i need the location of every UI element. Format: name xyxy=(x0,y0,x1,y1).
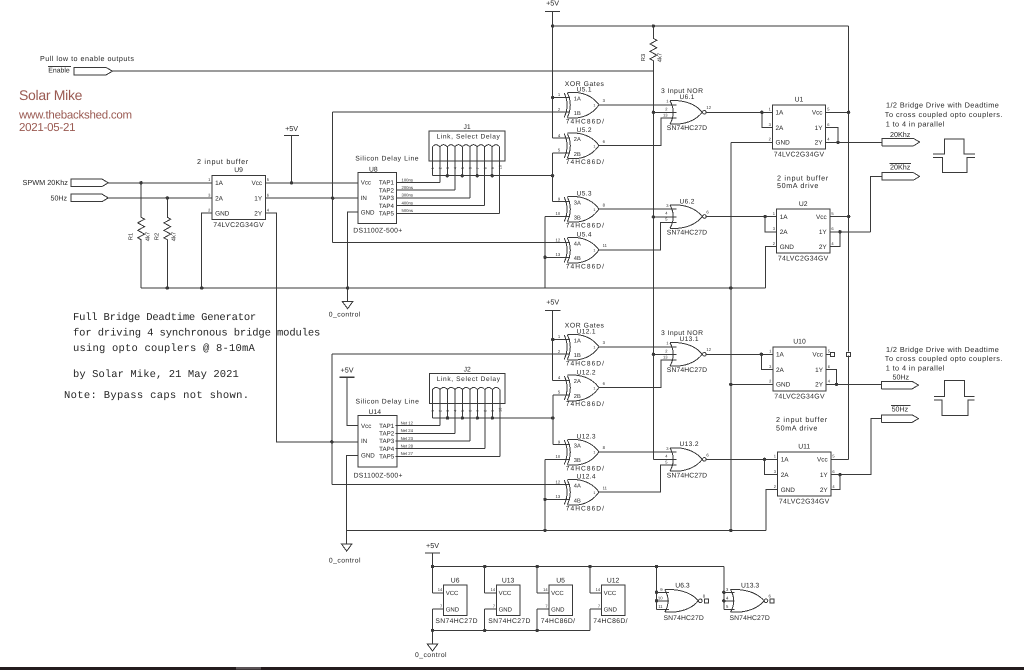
svg-text:Silicon Delay Line: Silicon Delay Line xyxy=(355,156,419,163)
svg-text:1Y: 1Y xyxy=(815,367,824,374)
svg-text:+5V: +5V xyxy=(341,366,354,375)
svg-text:20Khz: 20Khz xyxy=(890,130,911,139)
svg-text:74LVC2G34GV: 74LVC2G34GV xyxy=(213,222,264,229)
svg-text:SN74HC27D: SN74HC27D xyxy=(488,618,530,625)
svg-text:2Y: 2Y xyxy=(819,244,828,251)
svg-text:Net 24: Net 24 xyxy=(401,428,414,433)
svg-text:2Y: 2Y xyxy=(254,210,263,217)
svg-text:U6.3: U6.3 xyxy=(675,583,690,590)
svg-text:U6.1: U6.1 xyxy=(680,94,695,101)
svg-text:1A: 1A xyxy=(776,110,785,117)
svg-text:Vcc: Vcc xyxy=(361,180,371,187)
svg-text:74HC86D/: 74HC86D/ xyxy=(566,118,605,125)
svg-text:1A: 1A xyxy=(776,352,785,359)
svg-text:DS1100Z-500+: DS1100Z-500+ xyxy=(353,228,402,235)
svg-text:Enable: Enable xyxy=(48,68,70,75)
svg-text:500ns: 500ns xyxy=(402,208,413,213)
svg-text:GND: GND xyxy=(781,487,796,494)
svg-text:TAP4: TAP4 xyxy=(379,446,395,453)
svg-text:TAP1: TAP1 xyxy=(379,423,395,430)
svg-text:12: 12 xyxy=(556,479,561,484)
svg-text:8: 8 xyxy=(484,410,488,412)
svg-text:4k7: 4k7 xyxy=(144,232,151,241)
svg-text:SN74HC27D: SN74HC27D xyxy=(664,615,704,622)
svg-text:SN74HC27D: SN74HC27D xyxy=(730,615,770,622)
svg-text:74LVC2G34GV: 74LVC2G34GV xyxy=(774,151,825,158)
svg-text:TAP4: TAP4 xyxy=(379,203,395,210)
svg-text:VCC: VCC xyxy=(551,590,564,597)
svg-text:3: 3 xyxy=(446,410,450,412)
svg-text:To cross coupled opto couplers: To cross coupled opto couplers. xyxy=(885,354,1003,363)
svg-text:1: 1 xyxy=(593,491,595,495)
svg-text:4: 4 xyxy=(453,167,457,169)
svg-text:U5: U5 xyxy=(556,577,565,584)
svg-text:+5V: +5V xyxy=(426,541,439,550)
svg-text:1: 1 xyxy=(431,410,435,412)
svg-text:U10: U10 xyxy=(793,339,806,346)
svg-text:U6: U6 xyxy=(451,577,460,584)
svg-text:Solar Mike: Solar Mike xyxy=(19,87,83,103)
svg-text:13: 13 xyxy=(556,494,561,499)
svg-text:1: 1 xyxy=(593,386,595,390)
svg-text:www.thebackshed.com: www.thebackshed.com xyxy=(18,109,132,121)
svg-text:2A: 2A xyxy=(215,196,224,203)
svg-text:50Hz: 50Hz xyxy=(893,374,910,382)
svg-text:14: 14 xyxy=(491,587,496,592)
svg-text:TAP5: TAP5 xyxy=(379,211,395,218)
svg-text:2Y: 2Y xyxy=(815,382,824,389)
svg-text:Link, Select Delay: Link, Select Delay xyxy=(437,376,501,383)
svg-text:U11: U11 xyxy=(798,444,810,451)
svg-text:4k7: 4k7 xyxy=(657,53,664,62)
svg-text:GND: GND xyxy=(776,382,791,389)
svg-text:1A: 1A xyxy=(780,214,789,221)
svg-text:12: 12 xyxy=(706,347,711,352)
svg-text:GND: GND xyxy=(776,140,791,147)
svg-text:IN: IN xyxy=(361,438,367,445)
svg-text:IN: IN xyxy=(361,195,367,202)
svg-text:U12.4: U12.4 xyxy=(577,474,596,481)
svg-text:SN74HC27D: SN74HC27D xyxy=(667,125,707,132)
svg-text:50mA drive: 50mA drive xyxy=(776,423,818,432)
svg-text:GND: GND xyxy=(446,606,460,613)
svg-text:10: 10 xyxy=(499,408,503,412)
svg-text:R1: R1 xyxy=(129,233,135,240)
svg-text:5: 5 xyxy=(461,410,465,412)
svg-text:U14: U14 xyxy=(369,409,382,416)
svg-text:300ns: 300ns xyxy=(402,193,413,198)
svg-text:1Y: 1Y xyxy=(819,229,828,236)
svg-text:50mA drive: 50mA drive xyxy=(777,181,819,190)
svg-text:R2: R2 xyxy=(154,233,161,240)
svg-text:2Y: 2Y xyxy=(820,487,829,494)
svg-text:200ns: 200ns xyxy=(402,185,413,190)
svg-text:U13.3: U13.3 xyxy=(741,583,759,590)
svg-text:Pull low to enable outputs: Pull low to enable outputs xyxy=(40,54,134,63)
svg-text:1: 1 xyxy=(431,167,435,169)
svg-text:3A: 3A xyxy=(574,201,581,207)
svg-text:0_control: 0_control xyxy=(329,558,361,565)
svg-text:6: 6 xyxy=(469,410,473,412)
svg-text:6: 6 xyxy=(468,167,472,169)
svg-text:U12.2: U12.2 xyxy=(577,369,596,376)
svg-text:74LVC2G34GV: 74LVC2G34GV xyxy=(778,256,829,263)
svg-text:74LVC2G34GV: 74LVC2G34GV xyxy=(779,499,830,506)
svg-text:74HC86D/: 74HC86D/ xyxy=(566,264,605,271)
svg-text:U13: U13 xyxy=(502,577,515,584)
svg-text:U5.2: U5.2 xyxy=(577,127,592,134)
svg-text:SN74HC27D: SN74HC27D xyxy=(667,472,707,479)
svg-text:74HC86D/: 74HC86D/ xyxy=(566,506,605,513)
svg-text:2A: 2A xyxy=(780,229,789,236)
svg-text:3B: 3B xyxy=(574,458,581,464)
svg-text:U8: U8 xyxy=(369,166,378,173)
svg-text:1Y: 1Y xyxy=(254,196,263,203)
svg-text:10: 10 xyxy=(658,595,663,600)
svg-text:1: 1 xyxy=(593,144,595,148)
svg-text:74HC86D/: 74HC86D/ xyxy=(566,360,605,367)
svg-text:1/2 Bridge Drive with Deadtime: 1/2 Bridge Drive with Deadtime xyxy=(886,101,999,110)
svg-text:4A: 4A xyxy=(574,242,581,248)
svg-text:2A: 2A xyxy=(776,125,785,132)
svg-text:Net 28: Net 28 xyxy=(401,444,414,449)
svg-text:Vcc: Vcc xyxy=(817,457,828,464)
svg-text:4: 4 xyxy=(454,410,458,412)
svg-text:13: 13 xyxy=(663,112,668,117)
svg-text:2A: 2A xyxy=(781,472,790,479)
svg-text:74HC86D/: 74HC86D/ xyxy=(566,466,605,473)
svg-text:Net 12: Net 12 xyxy=(401,420,414,425)
svg-text:3 Input NOR: 3 Input NOR xyxy=(661,88,703,95)
svg-text:74HC86D/: 74HC86D/ xyxy=(566,223,605,230)
svg-text:74HC86D/: 74HC86D/ xyxy=(541,618,576,625)
svg-text:2B: 2B xyxy=(574,394,581,400)
svg-text:Vcc: Vcc xyxy=(361,423,371,430)
svg-text:74HC86D/: 74HC86D/ xyxy=(566,159,605,166)
svg-text:Full Bridge Deadtime Generator: Full Bridge Deadtime Generator xyxy=(73,312,256,324)
svg-text:2A: 2A xyxy=(574,137,581,143)
svg-text:9: 9 xyxy=(491,167,495,169)
svg-text:Note: Bypass caps not shown.: Note: Bypass caps not shown. xyxy=(64,390,249,402)
svg-text:74HC86D/: 74HC86D/ xyxy=(593,618,628,625)
svg-text:TAP3: TAP3 xyxy=(379,438,395,445)
svg-text:TAP5: TAP5 xyxy=(379,454,395,461)
svg-text:VCC: VCC xyxy=(604,590,617,597)
svg-text:1: 1 xyxy=(593,208,595,212)
svg-text:+5V: +5V xyxy=(546,0,559,8)
svg-text:VCC: VCC xyxy=(499,590,512,597)
svg-text:50Hz: 50Hz xyxy=(892,405,909,413)
svg-text:14: 14 xyxy=(543,587,548,592)
svg-text:SN74HC27D: SN74HC27D xyxy=(667,229,707,236)
svg-text:1: 1 xyxy=(593,104,595,108)
svg-text:2A: 2A xyxy=(574,379,581,385)
svg-text:U5.3: U5.3 xyxy=(577,191,592,198)
svg-text:1A: 1A xyxy=(215,180,224,187)
svg-text:SPWM 20Khz: SPWM 20Khz xyxy=(23,178,69,187)
svg-text:2021-05-21: 2021-05-21 xyxy=(19,122,75,134)
svg-text:2Y: 2Y xyxy=(815,140,824,147)
svg-text:1: 1 xyxy=(593,346,595,350)
svg-text:1A: 1A xyxy=(574,338,581,344)
svg-text:9: 9 xyxy=(491,410,495,412)
svg-text:400ns: 400ns xyxy=(402,200,413,205)
svg-text:Vcc: Vcc xyxy=(251,180,262,187)
svg-text:GND: GND xyxy=(780,244,795,251)
svg-text:4B: 4B xyxy=(574,498,581,504)
svg-text:using opto couplers @ 8-10mA: using opto couplers @ 8-10mA xyxy=(73,343,256,355)
svg-text:U5.1: U5.1 xyxy=(577,87,592,94)
svg-text:3B: 3B xyxy=(574,215,581,221)
svg-text:5: 5 xyxy=(461,167,465,169)
svg-text:U12.3: U12.3 xyxy=(577,434,596,441)
svg-text:100ns: 100ns xyxy=(402,177,413,182)
svg-text:14: 14 xyxy=(596,587,601,592)
svg-text:11: 11 xyxy=(658,604,663,609)
svg-text:U12: U12 xyxy=(607,577,620,584)
svg-text:1Y: 1Y xyxy=(820,472,829,479)
svg-text:2: 2 xyxy=(439,410,443,412)
svg-text:SN74HC27D: SN74HC27D xyxy=(667,367,707,374)
svg-text:Net 23: Net 23 xyxy=(401,436,414,441)
svg-text:Net 27: Net 27 xyxy=(401,451,414,456)
svg-text:3 Input NOR: 3 Input NOR xyxy=(661,330,703,337)
svg-text:10: 10 xyxy=(498,165,502,169)
svg-text:1/2 Bridge Drive with Deadtime: 1/2 Bridge Drive with Deadtime xyxy=(886,345,999,354)
svg-text:10: 10 xyxy=(556,454,561,459)
svg-text:TAP3: TAP3 xyxy=(379,195,395,202)
svg-text:74HC86D/: 74HC86D/ xyxy=(566,401,605,408)
svg-text:J1: J1 xyxy=(463,124,470,131)
svg-text:1A: 1A xyxy=(574,96,581,102)
svg-text:2: 2 xyxy=(438,167,442,169)
svg-text:14: 14 xyxy=(438,587,443,592)
svg-text:J2: J2 xyxy=(464,367,471,374)
svg-text:TAP2: TAP2 xyxy=(379,431,395,438)
svg-text:3A: 3A xyxy=(574,444,581,450)
svg-text:0_control: 0_control xyxy=(329,311,361,318)
svg-text:U12.1: U12.1 xyxy=(577,329,596,336)
svg-text:Vcc: Vcc xyxy=(812,352,823,359)
svg-text:2A: 2A xyxy=(776,367,785,374)
svg-text:50Hz: 50Hz xyxy=(51,194,68,202)
svg-text:74LVC2G34GV: 74LVC2G34GV xyxy=(774,393,825,400)
svg-text:1: 1 xyxy=(593,249,595,253)
svg-text:2 input buffer: 2 input buffer xyxy=(197,157,249,166)
svg-text:Link, Select Delay: Link, Select Delay xyxy=(437,133,501,140)
svg-text:13: 13 xyxy=(556,252,561,257)
svg-text:8: 8 xyxy=(483,167,487,169)
svg-text:13: 13 xyxy=(663,354,668,359)
svg-text:1B: 1B xyxy=(574,111,581,117)
svg-text:12: 12 xyxy=(706,105,711,110)
svg-text:1A: 1A xyxy=(781,457,790,464)
svg-text:1 to 4 in parallel: 1 to 4 in parallel xyxy=(886,364,945,373)
svg-text:2B: 2B xyxy=(574,152,581,158)
svg-text:4A: 4A xyxy=(574,484,581,490)
svg-text:11: 11 xyxy=(603,485,608,490)
svg-text:Vcc: Vcc xyxy=(812,110,823,117)
svg-text:1B: 1B xyxy=(574,353,581,359)
svg-text:+5V: +5V xyxy=(285,124,298,133)
svg-text:SN74HC27D: SN74HC27D xyxy=(435,618,477,625)
svg-text:Vcc: Vcc xyxy=(816,214,827,221)
svg-text:1: 1 xyxy=(593,451,595,455)
svg-text:7: 7 xyxy=(476,410,480,412)
svg-text:TAP2: TAP2 xyxy=(379,187,395,194)
svg-text:Silicon Delay Line: Silicon Delay Line xyxy=(356,399,420,406)
svg-text:U1: U1 xyxy=(795,97,804,104)
svg-text:U13.2: U13.2 xyxy=(680,441,699,448)
svg-text:U6.2: U6.2 xyxy=(680,198,695,205)
svg-text:GND: GND xyxy=(361,209,375,216)
svg-text:12: 12 xyxy=(556,237,561,242)
svg-text:R3: R3 xyxy=(640,54,647,61)
svg-text:1Y: 1Y xyxy=(815,125,824,132)
svg-text:4k7: 4k7 xyxy=(171,232,178,241)
svg-text:U13.1: U13.1 xyxy=(680,336,699,343)
svg-text:0_control: 0_control xyxy=(415,652,447,659)
svg-text:To cross coupled opto couplers: To cross coupled opto couplers. xyxy=(885,110,1003,119)
svg-text:for driving 4 synchronous brid: for driving 4 synchronous bridge modules xyxy=(73,327,320,339)
svg-text:GND: GND xyxy=(499,606,513,613)
svg-text:GND: GND xyxy=(215,210,230,217)
svg-text:GND: GND xyxy=(604,606,618,613)
svg-text:4B: 4B xyxy=(574,256,581,262)
svg-text:7: 7 xyxy=(476,167,480,169)
svg-text:3: 3 xyxy=(446,167,450,169)
svg-text:+5V: +5V xyxy=(546,297,559,306)
svg-text:11: 11 xyxy=(603,243,608,248)
svg-text:DS1100Z-500+: DS1100Z-500+ xyxy=(354,473,403,480)
svg-text:U9: U9 xyxy=(234,167,243,174)
svg-text:1 to 4 in parallel: 1 to 4 in parallel xyxy=(886,119,945,128)
svg-text:10: 10 xyxy=(556,211,561,216)
svg-text:GND: GND xyxy=(361,453,375,460)
svg-text:U2: U2 xyxy=(799,201,808,208)
svg-text:by Solar Mike, 21 May 2021: by Solar Mike, 21 May 2021 xyxy=(73,369,239,381)
svg-text:TAP1: TAP1 xyxy=(379,180,395,187)
svg-text:GND: GND xyxy=(551,606,565,613)
svg-text:VCC: VCC xyxy=(446,590,459,597)
svg-text:U5.4: U5.4 xyxy=(577,232,592,239)
